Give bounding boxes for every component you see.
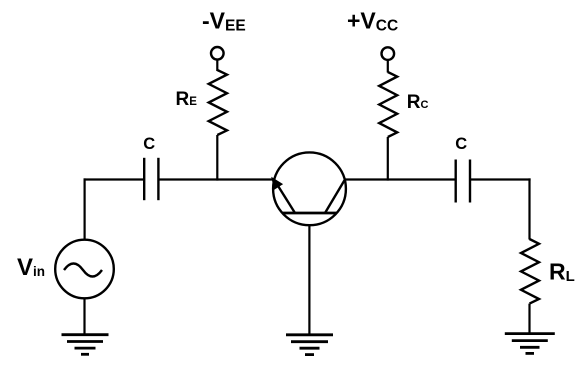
ground (left, under Vin) <box>62 335 109 355</box>
svg-text:+VCC: +VCC <box>347 8 398 35</box>
wire input corner to C1 <box>84 178 144 180</box>
capacitor C2 (output coupling) <box>456 160 470 203</box>
resistor RE <box>209 70 227 135</box>
wire +VCC terminal to RC <box>387 60 389 73</box>
wire corner down to RL <box>528 178 530 239</box>
wire C1 to emitter <box>158 178 275 180</box>
svg-text:RC: RC <box>407 92 429 113</box>
wire base to ground <box>308 225 310 335</box>
svg-text:RE: RE <box>176 89 198 110</box>
capacitor C1 (input coupling) <box>144 158 158 200</box>
svg-text:C: C <box>143 135 155 153</box>
ground (base, middle) <box>286 335 333 355</box>
resistor RL <box>521 239 539 304</box>
wire collector to C2 <box>345 178 456 180</box>
resistor RC <box>379 72 397 137</box>
ground (right, under RL) <box>505 334 555 354</box>
terminal -VEE <box>211 47 224 60</box>
wire C2 to output corner <box>470 178 531 180</box>
source Vin (AC sine source) <box>55 240 114 299</box>
wire RE to emitter node <box>216 135 218 181</box>
wire corner down to Vin <box>83 178 85 240</box>
svg-text:RL: RL <box>549 259 575 286</box>
wire RL to ground <box>528 304 530 335</box>
transistor Q1 (NPN, common base) <box>272 152 346 225</box>
svg-text:Vin: Vin <box>17 254 45 281</box>
terminal +VCC <box>382 47 395 60</box>
wire Vin to ground <box>83 298 85 335</box>
wire RC to collector node <box>387 137 389 181</box>
svg-text:C: C <box>455 135 467 153</box>
svg-text:-VEE: -VEE <box>202 8 246 35</box>
wire -VEE terminal to RE <box>216 60 218 71</box>
